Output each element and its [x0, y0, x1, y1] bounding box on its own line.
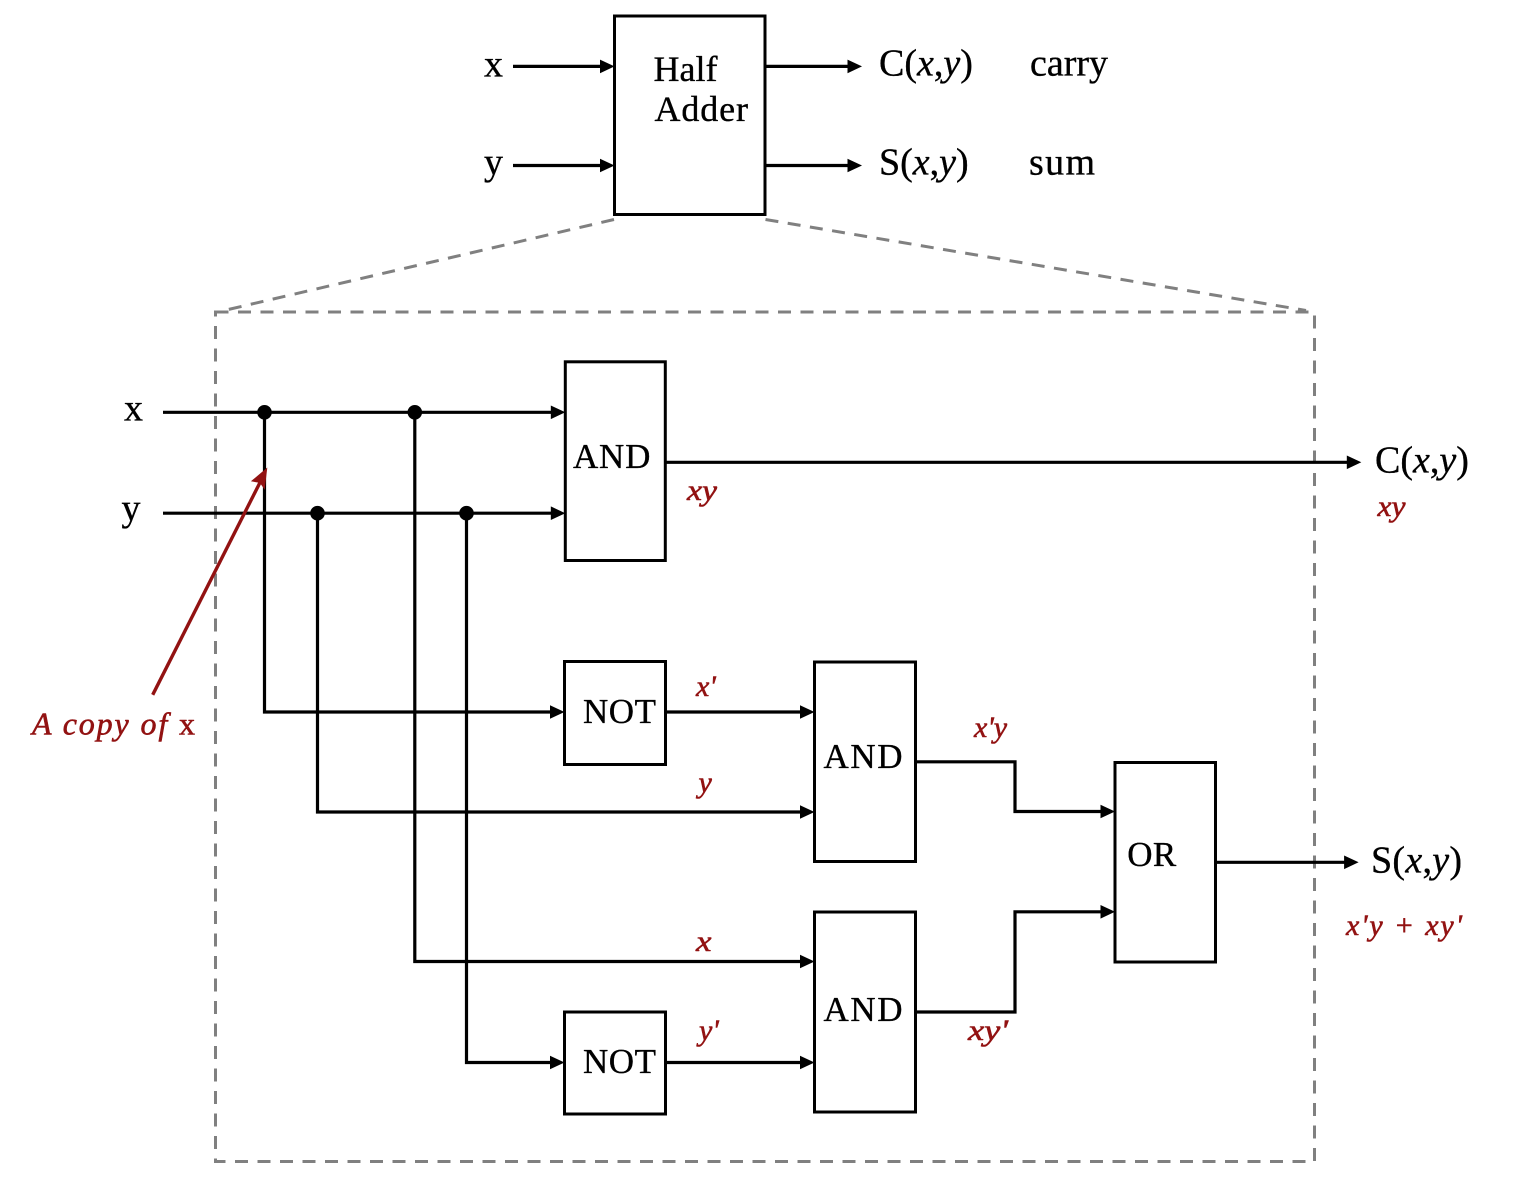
svg-text:Half: Half — [654, 49, 718, 89]
svg-text:AND: AND — [824, 990, 903, 1029]
svg-text:x: x — [124, 388, 143, 430]
wire y to AND1 — [163, 512, 552, 515]
wire y' from NOT2 to AND3 — [666, 1061, 802, 1064]
junction dot y2 — [459, 506, 474, 521]
wire y input to half adder — [513, 164, 601, 167]
wire S output of half adder — [765, 164, 848, 167]
svg-text:NOT: NOT — [583, 692, 656, 731]
wire x to AND1 — [163, 411, 552, 414]
svg-text:x': x' — [695, 670, 716, 703]
wire copy of x to NOT1 — [265, 412, 552, 712]
svg-text:sum: sum — [1029, 142, 1095, 184]
svg-text:xy: xy — [686, 474, 718, 507]
annotation arrow A copy of x — [153, 482, 261, 695]
AND gate U3 — [815, 662, 916, 862]
wire copy of x to AND3 — [415, 412, 801, 961]
svg-text:y: y — [122, 488, 141, 530]
half adder block U0 — [615, 16, 766, 215]
svg-text:A copy of x: A copy of x — [30, 706, 195, 742]
svg-text:x'y: x'y — [973, 711, 1008, 744]
wire x input to half adder — [513, 65, 601, 68]
wire copy of y to AND2 — [318, 513, 802, 812]
dashed expansion boundary box — [216, 312, 1315, 1162]
svg-text:x: x — [484, 44, 503, 86]
svg-text:x: x — [695, 925, 712, 958]
wire C output of half adder — [765, 65, 848, 68]
dashed expansion line right — [766, 220, 1307, 311]
svg-text:C(x,y): C(x,y) — [1375, 440, 1469, 482]
junction dot x1 — [257, 405, 272, 420]
wire C(x,y) from AND1 — [665, 461, 1348, 464]
svg-text:OR: OR — [1127, 835, 1177, 874]
svg-text:xy: xy — [1376, 490, 1406, 523]
svg-text:Adder: Adder — [655, 89, 749, 129]
svg-text:x'y + xy': x'y + xy' — [1345, 909, 1463, 942]
svg-text:AND: AND — [824, 737, 903, 776]
wire S(x,y) from OR — [1216, 861, 1346, 864]
wire x'y from AND2 to OR — [916, 762, 1102, 812]
svg-text:S(x,y): S(x,y) — [1371, 840, 1462, 882]
svg-text:C(x,y): C(x,y) — [879, 43, 973, 85]
wire copy of y to NOT2 — [467, 513, 552, 1062]
NOT gate U4 — [565, 1012, 666, 1114]
wire x' from NOT1 to AND2 — [666, 710, 802, 713]
svg-text:AND: AND — [573, 437, 651, 476]
svg-text:carry: carry — [1030, 43, 1108, 85]
svg-text:S(x,y): S(x,y) — [879, 142, 969, 184]
AND gate U5 — [815, 912, 916, 1112]
svg-text:y': y' — [696, 1014, 719, 1047]
junction dot y1 — [310, 506, 325, 521]
svg-text:NOT: NOT — [583, 1042, 656, 1081]
junction dot x2 — [408, 405, 423, 420]
svg-text:y: y — [484, 142, 503, 184]
svg-text:xy': xy' — [967, 1014, 1009, 1047]
svg-text:y: y — [696, 766, 713, 799]
dashed expansion line left — [224, 220, 614, 311]
wire xy' from AND3 to OR — [916, 912, 1102, 1012]
AND gate U1 — [565, 362, 665, 561]
NOT gate U2 — [565, 662, 666, 765]
OR gate U6 — [1115, 763, 1216, 963]
